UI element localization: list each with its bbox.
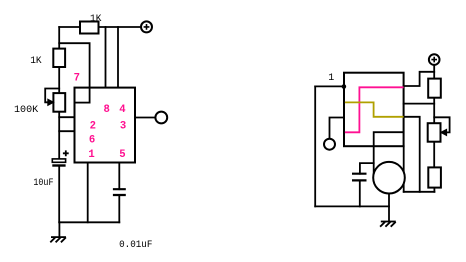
wire R2 bottom to pot top xyxy=(58,67,60,93)
magenta internal wire xyxy=(345,87,404,132)
svg-text:0.01uF: 0.01uF xyxy=(119,240,152,251)
wire node 1 horizontal xyxy=(315,85,344,87)
wire box bottom-right down xyxy=(403,146,405,192)
resistor R3 xyxy=(428,79,441,98)
svg-text:1: 1 xyxy=(88,149,94,161)
IC U1 555 body xyxy=(75,88,136,163)
svg-text:5: 5 xyxy=(119,149,125,161)
wire branch node A to pin 7 xyxy=(59,43,89,102)
wire stub to pin 2 xyxy=(59,116,74,118)
capacitor C3 plates xyxy=(352,174,367,181)
resistor R2 1K vertical xyxy=(53,49,65,67)
wire C1 bottom to ground rail xyxy=(58,166,60,223)
wire VR2 wiper loop xyxy=(434,117,449,132)
wire pot VR2 to R4 xyxy=(433,142,435,168)
wire stub to pin 6 xyxy=(59,130,74,132)
wire left rail xyxy=(314,86,316,206)
wire R3 to pot VR2 xyxy=(433,98,435,124)
wire pin 4 to +V rail xyxy=(117,27,119,88)
wire pin 5 to C2 xyxy=(118,163,120,190)
wire C2 bottom to ground rail xyxy=(118,195,120,222)
wire top rail right segment to power xyxy=(99,26,142,28)
wire pin 1 to ground rail xyxy=(87,163,89,223)
capacitor C2 0.01uF plates xyxy=(113,189,126,195)
wire C3 bottom lead xyxy=(359,180,361,206)
wire pin 8 to +V rail xyxy=(105,27,107,88)
svg-text:3: 3 xyxy=(120,121,126,133)
wire ground stem xyxy=(58,222,60,237)
wire input terminal to box xyxy=(330,118,345,139)
C1 polarity plus sign xyxy=(63,150,69,156)
wire speaker to ground xyxy=(388,194,390,222)
wire bottom rail xyxy=(315,205,389,207)
svg-text:1: 1 xyxy=(328,73,334,84)
potentiometer VR2 xyxy=(428,123,441,142)
svg-text:7: 7 xyxy=(74,73,80,85)
potentiometer VR1 100K xyxy=(53,93,65,112)
ground symbol right circuit xyxy=(380,222,396,227)
svg-text:1K: 1K xyxy=(90,14,101,25)
wire pot bottom down to C1 xyxy=(58,112,60,159)
IC U1 corner notch xyxy=(75,102,90,104)
wire box to +V branch xyxy=(404,72,435,86)
wire box to R4 bottom xyxy=(404,117,420,192)
svg-text:6: 6 xyxy=(89,134,95,146)
power terminal +V left circuit xyxy=(141,21,152,32)
capacitor C1 bottom plate xyxy=(52,164,65,166)
wire box to R3-pot node xyxy=(404,103,435,105)
olive internal wire xyxy=(345,102,404,116)
wiper arrow of VR2 xyxy=(441,129,447,135)
svg-text:2: 2 xyxy=(90,121,96,133)
capacitor C1 10uF electrolytic : top plate xyxy=(52,159,65,162)
ground symbol left circuit xyxy=(50,237,66,242)
wire box to speaker (step) xyxy=(374,132,404,173)
svg-text:4: 4 xyxy=(119,104,126,116)
power terminal +V right circuit xyxy=(429,54,440,65)
wire pin 3 to output terminal xyxy=(135,117,155,119)
speaker / transducer circle xyxy=(373,162,405,194)
resistor R4 xyxy=(428,167,441,187)
wire from rail corner down to R2 top xyxy=(58,27,60,49)
output terminal (pin 3) xyxy=(155,112,167,124)
wire +V to R3 xyxy=(433,65,435,79)
wire pot wiper loop xyxy=(45,89,59,103)
resistor R1 1K horizontal xyxy=(80,22,99,34)
input terminal circle right circuit xyxy=(324,139,335,150)
svg-text:8: 8 xyxy=(104,104,110,116)
wire R4 bottom stub xyxy=(433,188,435,192)
wire C3 top lead xyxy=(360,163,374,174)
svg-text:1K: 1K xyxy=(30,56,41,67)
wire bottom-right horizontal xyxy=(404,191,435,193)
wiper arrow of VR1 xyxy=(48,99,54,105)
svg-text:100K: 100K xyxy=(14,105,38,116)
svg-text:10uF: 10uF xyxy=(33,178,53,189)
IC/module box U2 xyxy=(344,73,404,147)
wire top rail left segment xyxy=(59,26,80,28)
wire ground rail xyxy=(59,221,119,223)
junction dot node 1 xyxy=(342,84,347,89)
